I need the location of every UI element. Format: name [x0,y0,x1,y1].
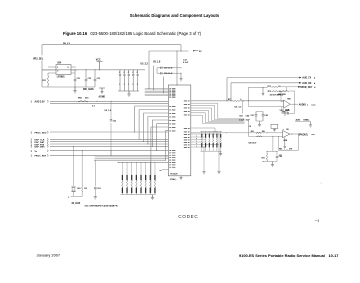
svg-text:.1: .1 [137,84,138,86]
net label AUD_RX [299,82,301,84]
ground under op-amp [284,137,286,146]
wire right fan band 5 [205,122,244,124]
wire: vertical x=153.5 [153,66,155,90]
stack bottom wire [201,150,222,152]
ground vertical x=219 [218,134,220,171]
capacitor stack column C93 [212,132,214,134]
codec left stub y=169.3 with label [162,168,168,170]
svg-text:U5_3.3: U5_3.3 [141,64,149,66]
resistor R27 vertical [266,152,268,162]
svg-text:U5_3.3: U5_3.3 [235,107,243,109]
svg-text:C31: C31 [77,78,80,80]
svg-text:U5_1.8: U5_1.8 [153,62,161,64]
wire U2A non-inverting input from x=248.4 [248,106,283,108]
wire right fan band 6 [202,123,244,125]
resistor stack column R44 [140,162,142,175]
codec right inner pin labels [184,101,190,148]
wire: vertical x=149 down to bus [148,51,150,89]
wire fan vertical 3 [143,113,145,142]
wire codec left pin 12 [148,116,168,118]
filter pack FL2 [271,124,278,128]
svg-text:R8: R8 [286,129,288,131]
wire: lower rail C y=87 [42,86,95,88]
capacitor stack column C92 [208,132,210,134]
capacitor C81 [255,112,257,122]
wire vertical x=272.9 [272,136,274,151]
svg-text:AGND: AGND [99,96,106,99]
wire codec right pin y=110.39999999999999 [191,109,209,111]
svg-text:C33: C33 [97,78,100,80]
wire codec right main audio pin y=100.8 [191,100,227,102]
svg-text:x: x [196,140,197,142]
stack bottom wire [120,194,155,196]
svg-text:PROC_RST: PROC_RST [35,156,47,158]
svg-text:R27: R27 [262,157,265,159]
wire row y=87.3 [248,86,267,88]
wire bus6 [145,95,169,97]
wire pin y=144.5 extension [205,144,219,146]
crystal bottom wire [71,195,83,197]
wire: top rail A [42,44,181,46]
ground under decoupling table [180,73,182,79]
svg-text:AUD: AUD [296,118,301,121]
svg-text:VCC_AUD: VCC_AUD [280,109,291,112]
wire codec pin y=132.8 start [191,132,227,134]
ground stub x=263 [262,86,265,89]
wire bus3 [145,90,169,92]
svg-text:R85: R85 [287,99,290,101]
svg-text:〉: 〉 [47,130,50,134]
resistor stack column R41 [126,162,128,175]
svg-text:C61: C61 [97,188,100,190]
svg-text:x: x [283,129,284,131]
svg-text:x: x [196,145,197,147]
decoupling table caps C13/C14 [157,68,181,73]
feedback loop R86 [278,134,298,150]
wire vertical x=242.7 to cap cluster [242,101,244,114]
wire net Vx [50,150,168,152]
capacitor stack column C91 [205,132,207,134]
stray speck [321,182,322,185]
wire codec left pin 11 [144,112,169,114]
wire codec left pin 13 [152,119,168,121]
wire vertical x=215 to cap stack [214,128,216,132]
svg-text:〉: 〉 [47,149,50,153]
regulator U24 [56,65,71,75]
svg-text:C82: C82 [265,115,268,117]
wire vertical x=111 jog [110,151,112,156]
resistor stack column R40 [121,162,123,175]
wire vertical feed x=248.4 [247,120,249,136]
svg-text:AUD 3.3V: AUD 3.3V [35,101,46,104]
svg-text:R72: R72 [268,86,271,88]
wire bus2 [145,89,169,91]
resistor stack column R47 [154,162,156,175]
wire: vertical x=177 from rail A2 to codec top [176,51,178,85]
resistor R32 on non-inverting input [257,136,262,137]
wire fan vertical 2 [138,110,140,140]
svg-text:VCC: VCC [96,60,101,62]
capacitor C33 [94,70,96,87]
svg-text:x: x [196,138,197,140]
net label AUD_TX [299,77,301,79]
wire codec right pin y=108.0 [191,107,212,109]
svg-text:U2B: U2B [283,140,287,142]
wire bus1 [145,88,169,90]
capacitor C42 [123,70,125,91]
wire non-inverting row y=136.3 [248,135,282,137]
ground flag AGND [99,88,105,92]
svg-text:MIC_BIAS: MIC_BIAS [83,88,94,91]
svg-text:DSP_DRX: DSP_DRX [35,147,46,149]
op-amp U2B [283,131,290,138]
wire: left vertical x=42 [41,45,43,87]
svg-text:U5_1.8: U5_1.8 [105,110,112,112]
svg-text:16.8: 16.8 [77,188,81,190]
stack ground [152,195,154,198]
wire net PROC_RST [50,154,168,156]
svg-text:C14 0.1uF: C14 0.1uF [164,72,173,75]
capacitor C45 [137,70,139,91]
bank bottom wire [118,90,139,92]
resistor stack column R46 [149,162,151,175]
svg-text:〉: 〉 [47,154,50,158]
svg-text:AUD_RX: AUD_RX [302,82,312,85]
ground vertical x=204 [203,147,205,172]
svg-text:xxx: xxx [279,155,282,157]
wire vertical x=248.4 top [247,87,249,101]
off-page arrow on rail A2 [193,50,198,52]
resistor stack column R43 [135,162,137,175]
svg-text:x: x [196,135,197,137]
wire codec pin y=144.5 [191,144,205,146]
wire join bracket [287,87,298,91]
svg-text:C32: C32 [88,78,91,80]
wire AUD_TX line y=77.5 [227,77,299,79]
ground below rail C [74,87,76,91]
svg-text:OSC COMPONENTS PLACED NEAR PIN: OSC COMPONENTS PLACED NEAR PIN [85,204,119,207]
wire main audio row continues [227,100,284,102]
wire codec pin y=137 [191,136,205,138]
wire vertical x=95.3 [94,160,96,186]
wire: vertical x=163.5 [163,77,165,93]
wire right fan band 4 [209,121,245,123]
wire bus4 [145,92,169,94]
svg-text:—1: —1 [315,219,320,223]
wire net DSP_DRX [50,145,168,147]
svg-text:3: 3 [57,71,58,73]
ground cap pair [259,121,261,124]
net label SPKR_OUT [298,86,300,88]
svg-text:0: 0 [240,99,241,101]
svg-text:.1: .1 [132,84,133,86]
wire right fan vertical 6 [201,115,203,123]
wire AUD_RX line y=82.8 [231,82,299,84]
svg-text:LP2981: LP2981 [57,77,66,79]
wire codec pin y=139.5 [191,139,205,141]
op IC U5 codec body [168,85,191,176]
capacitor stack column C90 [201,132,203,134]
wire fan vertical 1 [134,106,136,132]
svg-text:R85 220K: R85 220K [278,94,286,96]
svg-text:1M: 1M [84,188,87,190]
crystal Y2 [72,188,75,191]
wire right fan vertical 5 [204,113,206,123]
svg-text:C13 0.1uF: C13 0.1uF [164,68,173,70]
wire right fan band 3 [212,120,245,122]
wire fan vertical 5 [151,120,153,146]
svg-text:〉: 〉 [47,100,50,104]
capacitor C61 [94,188,97,189]
wire right fan vertical 4 [208,110,210,121]
svg-text:R73: R73 [268,91,271,93]
feedback resistor R85 [281,91,295,104]
svg-text:ENBL: ENBL [304,119,310,121]
wire L1 y=101.3 [50,100,168,102]
wire fan vertical 4 [147,117,149,145]
codec left inner pin labels [169,89,175,168]
svg-text:AUD_TX: AUD_TX [302,77,311,80]
wire right fan vertical 2 [214,106,216,120]
wire vertical x=231 [230,83,232,101]
svg-text:5: 5 [68,67,69,69]
svg-text:.1: .1 [123,84,124,86]
svg-text:Schematic Diagrams and Compone: Schematic Diagrams and Component Layouts [130,13,220,18]
svg-text:.1: .1 [128,84,129,86]
wire codec ground pin y=127 to pullup stack ground [151,126,168,128]
bypass cap stack right of codec [201,131,222,133]
wire U2B output [290,133,298,135]
wire codec right pin y=115.19999999999999 [191,114,203,116]
capacitor C43 [128,70,130,91]
wire stack top rail y=162.3 [118,161,168,163]
wire bus5 [145,93,169,95]
svg-text:CODEC: CODEC [178,214,198,219]
wire L10 y=160.2 [95,159,166,161]
wire net DSP_FSX [50,143,168,145]
wire codec left pin 15 [166,130,169,132]
svg-text:1: 1 [57,67,58,69]
wire codec right pin y=103.2 [191,102,218,104]
wire codec pin y=128 [191,127,215,129]
capacitor C41 [119,70,121,91]
svg-text:R86: R86 [279,148,282,150]
wire: rail A2 y=51 [149,50,188,52]
capacitor C32 [85,70,87,87]
wire vertical x=82.2 [81,151,83,186]
svg-text:.1: .1 [119,84,120,86]
wire net PROC_SDO [50,131,168,133]
resistor stack column R45 [145,162,147,175]
wire codec left pin 9 [135,105,169,107]
op-amp U2A [284,100,291,108]
svg-text:0.1uF: 0.1uF [183,62,189,64]
capacitor C85 vertical [276,152,278,162]
svg-text:R31: R31 [251,131,254,133]
svg-text:C52: C52 [113,120,116,122]
wire R27/C85 top link [267,151,277,153]
capacitor stack column C94 [216,132,218,134]
wire fan vertical 7 [165,131,167,161]
svg-text:9100-ES Series Portable Radio: 9100-ES Series Portable Radio Service Ma… [239,253,325,258]
wire codec pin y=134 [191,133,219,135]
svg-text:VR3_SEL: VR3_SEL [33,58,44,60]
svg-text:〉: 〉 [47,145,50,149]
ground under codec bottom [180,176,182,178]
svg-text:Figure 10.16 023-5500-180/182/: Figure 10.16 023-5500-180/182/185 Logic … [63,31,202,36]
wire codec left pin 14 [157,123,169,125]
svg-text:January 2007: January 2007 [37,253,61,258]
resistor stack column R42 [131,162,133,175]
wire: rail B y=69.8 [42,69,145,71]
wire vertical x=111 with capacitor C52 [110,101,112,155]
svg-text:TLV320: TLV320 [170,174,178,176]
wire L2 y=103.3 [50,102,168,104]
svg-text:x: x [196,143,197,145]
U24 pin wires [42,67,56,73]
wire codec pin y=147 [191,146,205,148]
capacitor stack column C95 [220,132,222,134]
wire cap pair top/bottom [256,111,263,113]
ground under C61 [94,197,97,199]
wire codec right pin y=112.8 [191,112,206,114]
capacitor C31 [74,70,76,87]
bottom wire with ground [263,161,277,163]
wire right fan band 2 [215,119,245,121]
wire net DSP_CLK [50,138,168,140]
feedback capacitor C86 [282,104,295,113]
svg-text:32_KHZ: 32_KHZ [72,203,81,205]
wire vertical x=227 [226,78,228,101]
wire: vertical from rail A to corner at x=181 down toward codec [180,45,182,51]
wire right fan vertical 1 [217,103,219,119]
resistor R9 [82,186,83,192]
wire codec pin long line to op-amp2 inverting input y=132.8 [227,132,283,134]
stack ground [220,151,222,153]
wire codec pin y=142 [191,141,205,143]
wire codec left pin 10 [139,109,168,111]
wire U2A inverting input [281,100,284,103]
svg-text:C8: C8 [249,126,251,128]
wire U2A output [290,103,298,105]
wire fan vertical 6 [156,124,158,151]
wire net DSP_DAT [50,141,168,143]
svg-text:PROC_SDO: PROC_SDO [35,132,47,134]
svg-text:C85 10uF: C85 10uF [248,143,257,145]
capacitor C44 [132,70,134,91]
svg-text:C83: C83 [239,115,242,117]
wire extra supply rows into codec [95,156,169,158]
wire right fan vertical 3 [211,108,213,121]
svg-text:SPKR_OUT: SPKR_OUT [300,87,313,89]
svg-text:C81: C81 [251,115,254,117]
ground for capacitor bank [128,91,130,94]
svg-text:10-17: 10-17 [329,253,339,258]
wire right fan band 1 [218,118,245,120]
capacitor C82 [262,112,264,122]
wire codec right pin y=105.6 [191,105,215,107]
wire vertical x=73.5 [73,146,75,186]
